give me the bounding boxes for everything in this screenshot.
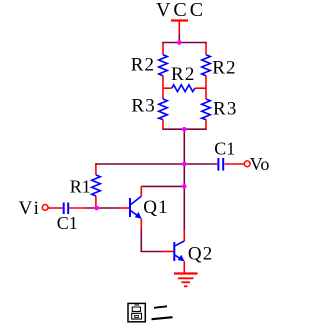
svg-text:R2: R2: [131, 54, 156, 75]
svg-text:Vi: Vi: [19, 198, 42, 219]
svg-text:R1: R1: [70, 177, 91, 197]
svg-text:R2: R2: [171, 64, 196, 85]
svg-text:Q2: Q2: [188, 244, 214, 265]
svg-text:C1: C1: [57, 213, 78, 233]
svg-text:Vo: Vo: [250, 154, 270, 174]
svg-text:R3: R3: [213, 98, 238, 119]
svg-text:R2: R2: [212, 58, 237, 79]
svg-text:R3: R3: [131, 95, 156, 116]
svg-text:C1: C1: [214, 139, 235, 159]
svg-text:Q1: Q1: [143, 197, 169, 218]
svg-text:VCC: VCC: [156, 0, 206, 21]
